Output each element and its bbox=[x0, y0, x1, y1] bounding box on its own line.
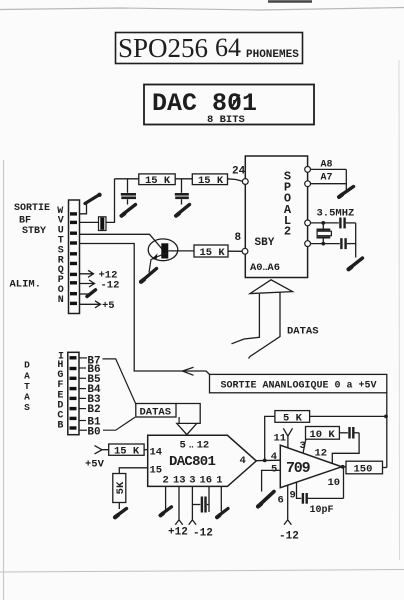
svg-text:SORTIE: SORTIE bbox=[14, 203, 50, 214]
resistor R3 (vertical hatched box) bbox=[99, 217, 107, 231]
connector J2 pin ticks bbox=[70, 356, 77, 430]
wire B0 to DATAS box bbox=[103, 417, 135, 430]
resistor R5 15K bbox=[109, 444, 144, 457]
ground for A7/A8 bbox=[341, 187, 354, 196]
node dot DAC output bbox=[263, 459, 267, 463]
wire R7 to right rail bbox=[310, 415, 387, 417]
node dot xtal top bbox=[321, 221, 325, 225]
resistor R2 15K bbox=[192, 174, 227, 187]
connector J1 pin letters W-N bbox=[57, 206, 64, 306]
svg-text:15: 15 bbox=[150, 464, 163, 476]
resistor R6 5K vertical bbox=[113, 474, 127, 503]
svg-text:B2: B2 bbox=[87, 404, 100, 416]
svg-text:10: 10 bbox=[328, 477, 341, 489]
svg-text:+5V: +5V bbox=[85, 459, 105, 471]
svg-text:9: 9 bbox=[290, 490, 296, 502]
ground tick pin 1 bbox=[219, 509, 229, 516]
ground for pin 5 bbox=[260, 492, 274, 505]
pin 11 supply stub bbox=[283, 428, 292, 448]
svg-text:15 K: 15 K bbox=[198, 175, 224, 187]
svg-text:5 K: 5 K bbox=[283, 412, 303, 424]
svg-text:A8: A8 bbox=[321, 160, 333, 171]
wire DATAS box to bus triangle bbox=[176, 404, 200, 424]
switch SW1 on pin W bbox=[80, 193, 102, 214]
output wire to R9 bbox=[342, 466, 346, 468]
U2 pin 2 stub bbox=[165, 486, 167, 511]
svg-text:6: 6 bbox=[278, 495, 284, 507]
svg-text:S: S bbox=[24, 402, 30, 413]
bus arrow under U1 bbox=[250, 280, 293, 294]
pin 9 stub bbox=[297, 482, 302, 498]
svg-text:+12: +12 bbox=[168, 527, 188, 539]
svg-text:A: A bbox=[24, 392, 30, 403]
ground for C1 bbox=[124, 205, 136, 214]
svg-text:24: 24 bbox=[232, 166, 246, 178]
svg-text:13: 13 bbox=[173, 474, 186, 486]
ground for crystal bbox=[351, 258, 363, 268]
svg-text:BF: BF bbox=[19, 216, 31, 227]
bus wire right bbox=[249, 292, 281, 359]
svg-text:-12: -12 bbox=[193, 528, 213, 540]
emitter ground stroke Q1 bbox=[143, 269, 157, 281]
wire C7 down to pin 12 bbox=[332, 433, 359, 463]
wire pin 15 to R6 bbox=[119, 468, 147, 474]
wire R2 to pin 24 bbox=[228, 179, 243, 182]
DATAS box (lower) bbox=[136, 404, 176, 419]
svg-text:DATAS: DATAS bbox=[140, 407, 172, 419]
resistor R7 5K bbox=[275, 411, 310, 425]
wire R3 to node up bbox=[106, 179, 115, 223]
arrowhead on analog output rail bbox=[183, 367, 194, 375]
page top edge line bbox=[0, 8, 404, 11]
resistor R4 15K bbox=[194, 245, 228, 259]
svg-text:15 K: 15 K bbox=[145, 175, 171, 187]
connector J2 pin letters I-B bbox=[57, 351, 64, 431]
bus triangle into DAC bbox=[177, 423, 197, 434]
U1 pin circle A8 bbox=[305, 167, 311, 173]
svg-text:5K: 5K bbox=[115, 481, 127, 494]
ground for C2 bbox=[178, 205, 190, 214]
svg-text:11: 11 bbox=[274, 432, 287, 444]
svg-text:B0: B0 bbox=[87, 426, 100, 438]
wire pin U to transistor base bbox=[80, 234, 163, 249]
svg-text:D: D bbox=[24, 360, 30, 371]
ground tick pin 2 bbox=[162, 507, 172, 514]
capacitor C2 bbox=[175, 179, 189, 205]
wire xtal bottom with C5 bbox=[311, 243, 340, 245]
U2 pin 3 stub with -12 bbox=[189, 486, 196, 524]
+5V arrow bbox=[95, 446, 109, 454]
ground for R6 bbox=[117, 509, 127, 516]
ground stroke on third alim pin bbox=[87, 290, 96, 297]
U2 bottom pin labels 2 13 3 16 1 bbox=[163, 474, 223, 486]
crystal X1 3.5MHZ bbox=[317, 223, 332, 244]
svg-text:5: 5 bbox=[271, 463, 277, 475]
svg-text:SPO256: SPO256 bbox=[118, 33, 208, 63]
svg-text:A: A bbox=[24, 371, 30, 382]
U1 vertical name SPOAL2 bbox=[284, 169, 292, 238]
svg-text:T: T bbox=[24, 381, 30, 392]
svg-text:N: N bbox=[58, 295, 64, 306]
svg-text:2: 2 bbox=[284, 225, 291, 239]
title box DAC 801 8 BITS bbox=[144, 85, 314, 127]
svg-text:709: 709 bbox=[286, 460, 311, 477]
title box SPO256 64 PHONEMES bbox=[116, 33, 303, 64]
wire R1 to R2 bbox=[175, 178, 192, 180]
wire top rail to R1 bbox=[115, 178, 139, 180]
transistor Q1 bbox=[148, 239, 178, 273]
capacitor C4 bbox=[340, 218, 355, 229]
wire R4 to pin 8 bbox=[228, 250, 242, 252]
capacitor C6 between pin3 and pin16 lines bbox=[192, 497, 209, 513]
U2 pin 16 stub bbox=[208, 486, 210, 512]
label DATAS vertical (left) bbox=[24, 360, 30, 414]
U1 pin circle xtal top bbox=[305, 220, 311, 226]
label SORTIE BF STBY bbox=[14, 203, 50, 237]
connector J1 pin ticks bbox=[70, 212, 77, 305]
capacitor C5 bbox=[341, 238, 355, 249]
svg-text:SORTIE ANANLOGIQUE 0 a +5V: SORTIE ANANLOGIQUE 0 a +5V bbox=[221, 380, 377, 391]
svg-text:-12: -12 bbox=[279, 530, 299, 542]
svg-text:4: 4 bbox=[240, 455, 246, 467]
right rail down from SORTIE box bbox=[386, 393, 388, 468]
wire pin T down to analog output rail bbox=[80, 244, 210, 375]
capacitor C8 10pF bbox=[303, 493, 344, 504]
U1 pin circle 8 bbox=[242, 248, 248, 254]
IC U1 SPOAL2 body bbox=[245, 156, 307, 278]
connector J2 body bbox=[68, 352, 79, 434]
svg-text:14: 14 bbox=[150, 447, 163, 459]
svg-text:DATAS: DATAS bbox=[287, 326, 319, 338]
resistor R1 15K bbox=[139, 174, 175, 187]
pin 6 stub with -12 bbox=[284, 485, 291, 525]
svg-text:A0..A6: A0..A6 bbox=[250, 262, 280, 274]
data bit labels B7-B0 with stubs bbox=[87, 355, 101, 438]
op-amp U3 709 triangle bbox=[280, 445, 341, 488]
svg-text:1: 1 bbox=[216, 474, 222, 486]
resistor R8 10K bbox=[306, 427, 340, 441]
svg-text:+5: +5 bbox=[102, 300, 115, 312]
arrows +12 -12 +5 on J1 bbox=[80, 270, 101, 308]
svg-text:3: 3 bbox=[189, 474, 195, 486]
svg-text:64: 64 bbox=[215, 33, 241, 62]
node dot output bbox=[341, 465, 345, 469]
node dot xtal bottom bbox=[321, 242, 325, 246]
wire xtal right join bbox=[355, 223, 357, 258]
wire A8 bbox=[311, 168, 347, 170]
svg-text:2: 2 bbox=[163, 474, 169, 486]
svg-text:10 K: 10 K bbox=[310, 429, 336, 441]
wire node up to R7 5K bbox=[265, 416, 275, 460]
svg-text:-12: -12 bbox=[101, 280, 120, 292]
U1 pin circle xtal bottom bbox=[305, 241, 311, 247]
svg-text:150: 150 bbox=[354, 464, 373, 476]
svg-text:DAC801: DAC801 bbox=[169, 454, 216, 470]
wire Q1 collector to R4 bbox=[168, 250, 194, 252]
bus wire left bbox=[232, 294, 260, 344]
DAC U2 DAC801 body bbox=[148, 435, 257, 486]
svg-text:STBY: STBY bbox=[22, 226, 46, 237]
wire R5 to pin 14 bbox=[144, 449, 148, 451]
svg-text:ALIM.: ALIM. bbox=[10, 279, 42, 291]
svg-text:16: 16 bbox=[200, 474, 213, 486]
svg-text:8 BITS: 8 BITS bbox=[207, 114, 245, 126]
svg-text:SBY: SBY bbox=[255, 237, 275, 249]
svg-text:PHONEMES: PHONEMES bbox=[246, 49, 299, 61]
U2 pin 13 stub with +12 bbox=[175, 486, 182, 524]
svg-text:12: 12 bbox=[315, 447, 328, 459]
svg-text:10pF: 10pF bbox=[310, 505, 334, 516]
svg-text:8: 8 bbox=[235, 232, 242, 244]
svg-text:B: B bbox=[57, 420, 63, 431]
wire C8 up to output node bbox=[343, 468, 345, 499]
svg-text:3: 3 bbox=[300, 440, 306, 452]
pin 3 stub to 10K bbox=[303, 439, 306, 453]
svg-text:15 K: 15 K bbox=[114, 445, 140, 457]
svg-text:A7: A7 bbox=[321, 172, 333, 183]
U1 pin circle A7 bbox=[305, 181, 311, 187]
svg-text:4: 4 bbox=[271, 451, 277, 463]
resistor R9 150 bbox=[346, 461, 383, 475]
wire xtal top with C4 bbox=[311, 222, 339, 224]
capacitor C1 bbox=[121, 179, 136, 205]
node dot right rail bbox=[384, 415, 388, 419]
capacitor C7 after R8 bbox=[339, 427, 359, 439]
wire pin 5 to ground bbox=[262, 470, 281, 491]
wire DAC output to op-amp bbox=[256, 459, 280, 462]
U1 pin circle 24 bbox=[242, 179, 248, 185]
svg-text:5..12: 5..12 bbox=[180, 440, 210, 452]
svg-text:3.5MHZ: 3.5MHZ bbox=[317, 208, 355, 220]
U2 pin 1 stub bbox=[220, 486, 222, 511]
wire A8/A7 join down bbox=[345, 169, 347, 190]
svg-text:15 K: 15 K bbox=[200, 247, 226, 259]
connector J1 body bbox=[69, 200, 80, 314]
SORTIE ANANLOGIQUE box bbox=[210, 374, 387, 392]
wire pin V to R3 bbox=[80, 221, 99, 223]
wire A7 bbox=[311, 183, 347, 185]
wire R9 to right rail bbox=[383, 467, 387, 469]
stub DATAS box bottom to triangle bbox=[178, 417, 180, 423]
wire B7 to DATAS box bbox=[103, 359, 136, 404]
wire R6 down bbox=[118, 503, 120, 510]
